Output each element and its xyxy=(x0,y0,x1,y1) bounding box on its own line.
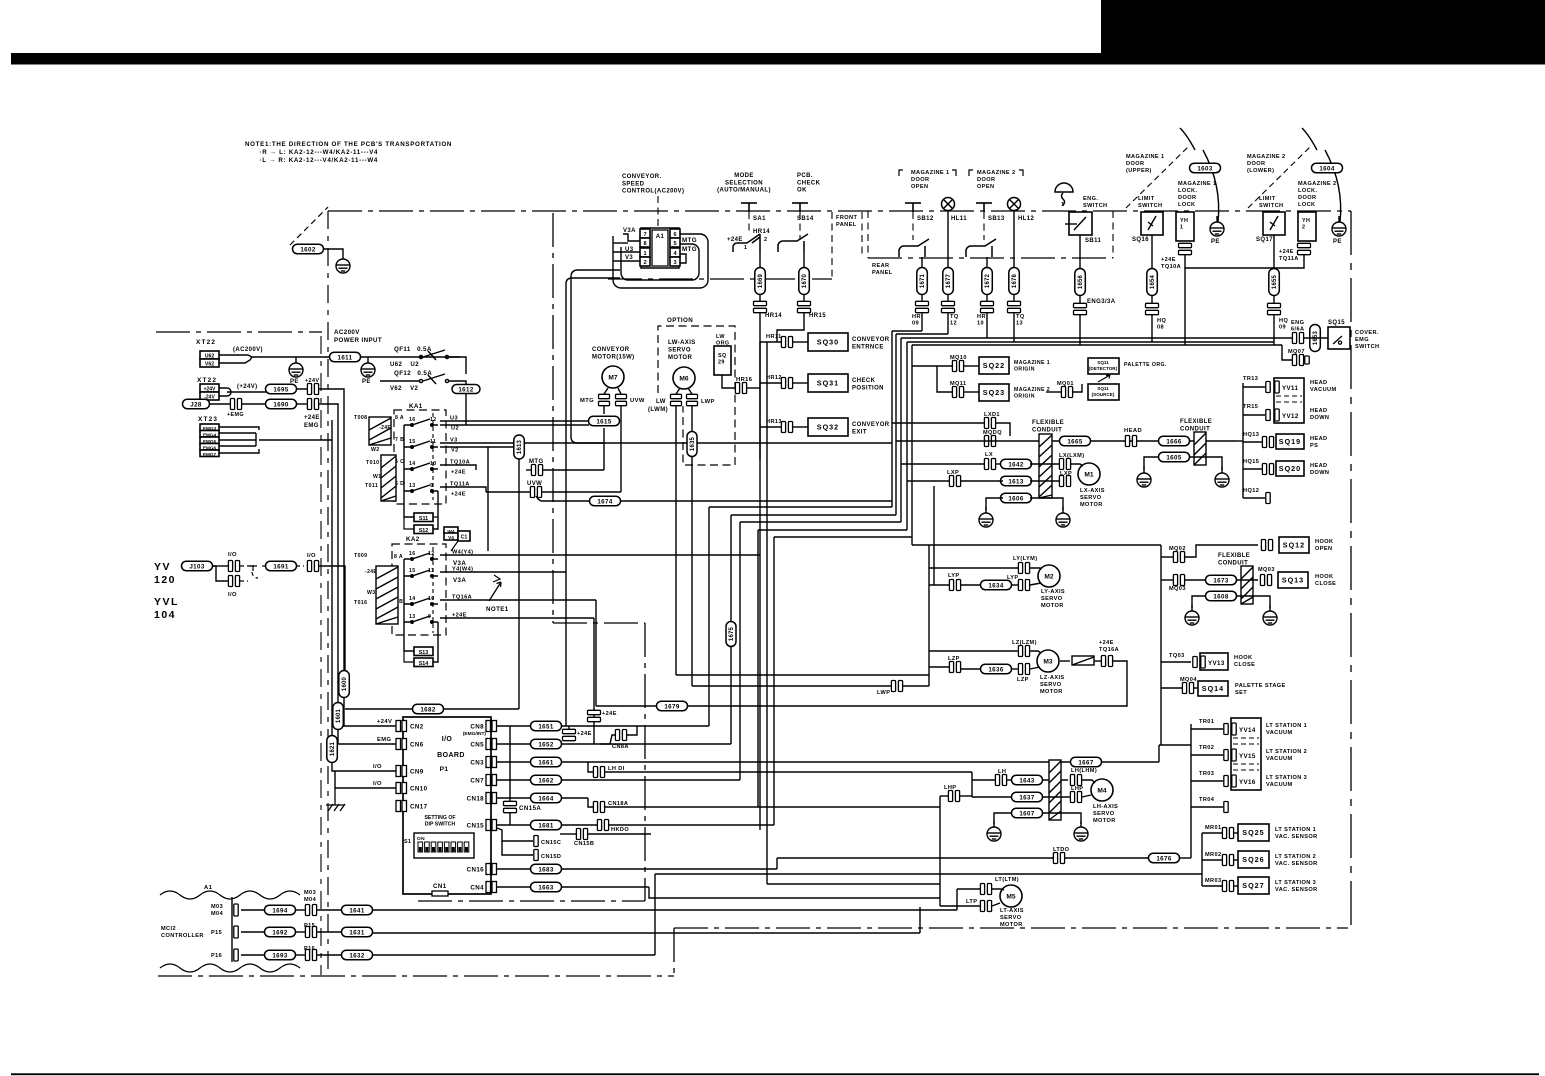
label conveyor speed control xyxy=(622,174,684,195)
label HR10 xyxy=(977,314,986,327)
conn lhp main xyxy=(948,791,959,802)
wire 1631 r xyxy=(372,932,920,934)
oval 1665 xyxy=(1060,436,1091,446)
wire uvw mid xyxy=(541,491,621,493)
label AC200V POWER INPUT xyxy=(334,329,382,344)
svg-text:TQ: TQ xyxy=(950,314,959,320)
oval 1611 xyxy=(330,352,361,362)
label YH2 xyxy=(1302,218,1310,231)
oval 1692 xyxy=(265,927,296,937)
svg-text:REAR: REAR xyxy=(872,263,889,269)
svg-text:HEAD: HEAD xyxy=(1310,380,1327,386)
conn below 1671 xyxy=(916,301,929,312)
wire 1642 xyxy=(1030,463,1060,465)
svg-text:1691: 1691 xyxy=(273,563,289,570)
SB12 contact xyxy=(899,239,929,257)
svg-text:1664: 1664 xyxy=(538,795,554,802)
border mid dash-dot v xyxy=(644,623,646,901)
svg-text:V3A: V3A xyxy=(623,228,636,234)
svg-text:12: 12 xyxy=(428,551,435,557)
svg-text:LT STATION 1: LT STATION 1 xyxy=(1266,723,1307,729)
svg-text:HL12: HL12 xyxy=(1018,216,1035,222)
svg-text:15: 15 xyxy=(409,568,416,574)
wire 1600 down xyxy=(344,697,396,726)
svg-text:1671: 1671 xyxy=(920,273,926,288)
svg-text:MQ03: MQ03 xyxy=(1258,567,1275,573)
XT22 box U62 xyxy=(200,351,219,360)
motor M2 xyxy=(1038,565,1060,587)
PE gnd b xyxy=(361,357,375,377)
svg-text:MOTOR: MOTOR xyxy=(1000,922,1023,928)
svg-text:DOOR: DOOR xyxy=(1126,161,1144,167)
svg-text:(+24V): (+24V) xyxy=(237,384,258,390)
CN1 tab xyxy=(432,891,448,896)
bus 760 xyxy=(759,342,761,830)
svg-text:YV: YV xyxy=(154,561,171,573)
svg-text:TQ03: TQ03 xyxy=(1169,653,1185,659)
oval 1691 xyxy=(266,561,297,571)
svg-text:V62 V2: V62 V2 xyxy=(390,386,419,392)
svg-text:ENTRNCE: ENTRNCE xyxy=(852,345,884,351)
svg-text:V3A: V3A xyxy=(453,577,466,584)
wire mq11 b xyxy=(963,391,979,393)
wire 1683 r xyxy=(561,868,777,870)
oval 1604 xyxy=(1312,163,1343,173)
bus vert 892 xyxy=(891,331,893,507)
oval 1679 xyxy=(657,701,688,711)
KA1 dashed box xyxy=(394,410,446,504)
svg-text:1651: 1651 xyxy=(538,723,554,730)
svg-text:CONVEYOR: CONVEYOR xyxy=(852,337,890,343)
conn io2 xyxy=(228,576,239,587)
svg-text:8 A: 8 A xyxy=(395,415,404,421)
wire lwp row xyxy=(692,685,891,687)
wire HR11 b xyxy=(792,341,808,343)
conn UVW mid xyxy=(530,487,541,498)
svg-text:S11: S11 xyxy=(419,516,428,522)
conn 1695 xyxy=(307,384,318,395)
conn ltp xyxy=(980,901,991,912)
svg-text:1608: 1608 xyxy=(1213,593,1229,600)
svg-text:CN7: CN7 xyxy=(470,778,484,785)
svg-text:8: 8 xyxy=(643,241,646,247)
pill 1656 xyxy=(1075,269,1086,296)
svg-text:TR03: TR03 xyxy=(1199,771,1214,777)
svg-text:1669: 1669 xyxy=(758,273,764,288)
wire 1605 xyxy=(1144,457,1159,470)
svg-text:1670: 1670 xyxy=(802,273,808,288)
oval 1613b xyxy=(1001,476,1032,486)
wire ka2 r4 24e xyxy=(440,617,594,619)
svg-text:1656: 1656 xyxy=(1078,274,1084,289)
KA2 s-wires xyxy=(404,559,414,651)
label NOTE1 arrow xyxy=(489,582,501,601)
wire HR15 down xyxy=(777,313,804,342)
conn MTG mid xyxy=(531,465,542,476)
wire m03 xyxy=(241,909,266,911)
svg-text:LT(LTM): LT(LTM) xyxy=(995,877,1019,883)
label lt station2 vac xyxy=(1266,749,1307,762)
wire hkdo r xyxy=(609,824,774,826)
wire tr04 xyxy=(1191,806,1223,808)
pill 1613 v xyxy=(514,435,525,459)
label flexible conduit hook xyxy=(1218,553,1250,567)
svg-text:M5: M5 xyxy=(1006,893,1015,900)
A1 pin3 xyxy=(670,257,680,266)
hatch conduit m4 xyxy=(1049,760,1061,820)
gnd 1607 r xyxy=(1074,821,1088,841)
SQ12 box xyxy=(1279,537,1309,553)
svg-text:CONDUIT: CONDUIT xyxy=(1180,427,1210,433)
svg-text:LWP: LWP xyxy=(701,399,715,405)
label magazine2 lock xyxy=(1298,181,1337,208)
svg-text:1607: 1607 xyxy=(1019,810,1035,817)
svg-text:MAGAZINE 1: MAGAZINE 1 xyxy=(1126,154,1165,160)
svg-text:V62: V62 xyxy=(205,362,214,368)
svg-text:SWITCH: SWITCH xyxy=(1355,344,1379,350)
svg-text:VAC. SENSOR: VAC. SENSOR xyxy=(1275,861,1318,867)
KA2 contact 15-11 xyxy=(404,570,438,577)
XT23 box EMG7 xyxy=(200,450,219,457)
wire p15 xyxy=(241,931,266,933)
svg-text:T016: T016 xyxy=(354,600,367,606)
conn MR01 xyxy=(1222,828,1233,839)
conn +24E a xyxy=(563,729,576,740)
YH2 conn xyxy=(1298,243,1311,254)
conn HR13 xyxy=(781,422,792,433)
wire cn8a xyxy=(600,735,615,744)
svg-text:SB14: SB14 xyxy=(797,216,814,222)
wire m6 lwp down xyxy=(691,406,693,431)
svg-text:08: 08 xyxy=(1157,325,1164,331)
BRAKE box xyxy=(1072,656,1094,665)
wire HR12 b xyxy=(792,382,808,384)
wire CN8 out xyxy=(497,725,531,727)
label MCI2 CONTROLLER xyxy=(161,926,204,939)
label TQ13 xyxy=(1016,314,1025,327)
wire tq16a loop xyxy=(596,661,1127,706)
svg-text:QF12 0.5A: QF12 0.5A xyxy=(394,370,432,377)
oval 1608 xyxy=(1206,591,1237,601)
conn CN15D xyxy=(534,850,538,861)
YV12 divider xyxy=(1276,401,1302,403)
svg-text:+24E: +24E xyxy=(304,415,320,421)
svg-text:HR11: HR11 xyxy=(766,334,782,340)
wire eng down xyxy=(1079,315,1081,345)
svg-text:I/O: I/O xyxy=(373,764,382,770)
svg-text:+24V: +24V xyxy=(377,719,392,725)
oval 1664 xyxy=(531,793,562,803)
oval 1603 xyxy=(1190,163,1221,173)
wire tq10a down xyxy=(1184,268,1186,345)
svg-text:LT STATION 3: LT STATION 3 xyxy=(1266,775,1307,781)
gnd 1607 l xyxy=(987,821,1001,841)
svg-text:I/O: I/O xyxy=(373,781,382,787)
svg-text:S1: S1 xyxy=(404,839,411,845)
conn lxp mid xyxy=(949,476,960,487)
svg-text:HQ: HQ xyxy=(1157,318,1166,324)
svg-text:P16: P16 xyxy=(211,953,222,959)
oval 1693 xyxy=(265,950,296,960)
svg-text:PE: PE xyxy=(1333,239,1342,245)
conn below 1654 xyxy=(1146,303,1159,314)
label TQ12 xyxy=(950,314,959,327)
conn p16 b xyxy=(305,950,316,961)
oval 1615 xyxy=(589,416,620,426)
svg-text:YH: YH xyxy=(1180,218,1188,224)
wire 1637 xyxy=(972,796,1012,798)
svg-text:1601: 1601 xyxy=(336,708,342,723)
label LX-AXIS SERVO MOTOR xyxy=(1080,488,1105,508)
svg-text:13: 13 xyxy=(409,614,416,620)
gnd 1605 l xyxy=(1137,467,1151,487)
svg-text:HR12: HR12 xyxy=(766,375,782,381)
rear panel left dash xyxy=(867,211,869,258)
svg-text:HQ15: HQ15 xyxy=(1243,459,1259,465)
svg-text:1634: 1634 xyxy=(988,582,1004,589)
label SQ29 xyxy=(718,353,727,366)
svg-text:1641: 1641 xyxy=(349,907,365,914)
svg-text:TQ: TQ xyxy=(1016,314,1025,320)
wire 1656 conn xyxy=(1079,296,1081,303)
wire 1621 down xyxy=(332,762,396,771)
label hook close 1 xyxy=(1315,574,1336,587)
border corner diag xyxy=(290,207,328,245)
svg-text:1690: 1690 xyxy=(273,401,289,408)
A1 pin4 xyxy=(670,248,680,257)
yv14 dividers xyxy=(1233,737,1259,739)
S12 box xyxy=(414,525,433,534)
wire lxd1 xyxy=(892,422,984,424)
wire mq07 drop xyxy=(1282,345,1292,360)
svg-text:AC200V: AC200V xyxy=(334,329,360,336)
conn ltdo xyxy=(1053,853,1064,864)
svg-text:HEAD: HEAD xyxy=(1310,436,1327,442)
pill 1671 xyxy=(917,268,928,295)
conn lyp2 xyxy=(1018,580,1029,591)
label lt station3 vac xyxy=(1266,775,1307,788)
pill 1655 xyxy=(1269,269,1280,296)
KA1 coil b xyxy=(381,455,396,501)
svg-text:8 A: 8 A xyxy=(394,554,403,560)
YV14-16 box xyxy=(1231,718,1261,790)
wire MR01 xyxy=(1202,832,1222,834)
bus vert 896 xyxy=(895,334,897,515)
svg-text:YV15: YV15 xyxy=(1239,753,1256,760)
SQ30 box xyxy=(808,333,848,351)
svg-text:M04: M04 xyxy=(304,897,317,903)
SQ13 box xyxy=(1278,572,1308,588)
wire 1613b xyxy=(907,480,949,482)
svg-text:1615: 1615 xyxy=(596,418,612,425)
svg-text:1: 1 xyxy=(1061,202,1065,208)
wire HR13 a xyxy=(760,426,781,428)
bus row 342 xyxy=(907,341,1274,343)
A1 wrap wire inner xyxy=(621,244,699,280)
SQ14 box xyxy=(1198,681,1228,696)
wire CN3 out xyxy=(497,761,531,763)
wire HR12 a xyxy=(760,382,781,384)
svg-text:HL11: HL11 xyxy=(951,216,967,222)
conn below 1672 xyxy=(981,301,994,312)
svg-text:+24E: +24E xyxy=(727,237,743,243)
svg-text:1621: 1621 xyxy=(330,741,336,756)
front panel inner dash a xyxy=(831,212,833,279)
svg-text:SB13: SB13 xyxy=(988,216,1005,222)
svg-text:+24E: +24E xyxy=(1161,257,1176,263)
gnd 1606 r xyxy=(1056,507,1070,527)
stair 2 horiz xyxy=(731,514,896,516)
bottom rule line xyxy=(11,1073,1539,1075)
conn lx xyxy=(984,459,995,470)
svg-text:1663: 1663 xyxy=(538,884,554,891)
diag dash mag1 xyxy=(1126,147,1188,208)
svg-text:CN2: CN2 xyxy=(410,724,424,731)
oval 1642 xyxy=(1001,459,1032,469)
A1 pin5 xyxy=(670,238,680,247)
conn CN9 xyxy=(396,766,401,777)
svg-text:LOCK: LOCK xyxy=(1298,202,1315,208)
oval J103 xyxy=(182,561,213,571)
label YH1 xyxy=(1180,218,1188,231)
svg-text:LOCK.: LOCK. xyxy=(1298,188,1317,194)
A1 left wires xyxy=(623,234,640,241)
svg-text:LT STATION 1: LT STATION 1 xyxy=(1275,827,1316,833)
yv15 dividers xyxy=(1233,763,1259,765)
svg-text:1631: 1631 xyxy=(349,929,365,936)
wire 940 vert xyxy=(939,796,941,906)
wire 1632 r xyxy=(372,954,655,956)
svg-text:2: 2 xyxy=(643,260,646,266)
wire w4 up xyxy=(451,541,458,551)
wire 767 bottom xyxy=(767,883,940,885)
oval 1605 xyxy=(1159,452,1190,462)
svg-text:10: 10 xyxy=(977,321,984,327)
KA2 dashed box xyxy=(392,544,446,635)
svg-text:U2: U2 xyxy=(451,426,459,432)
svg-text:7 B: 7 B xyxy=(395,437,404,443)
conn mq02 b xyxy=(1261,540,1272,551)
wire tq11a out xyxy=(440,487,486,492)
conn LWP low xyxy=(891,681,902,692)
wire ka2 r3 tq16a xyxy=(440,599,596,601)
svg-text:MAGAZINE 1: MAGAZINE 1 xyxy=(1014,360,1050,366)
svg-text:MOTOR: MOTOR xyxy=(1040,689,1063,695)
conn p15 b xyxy=(305,927,316,938)
wire cn18a r xyxy=(605,806,940,808)
svg-text:POSITION: POSITION xyxy=(852,386,884,392)
conn yv16 xyxy=(1232,775,1236,787)
conn below 1669 xyxy=(754,301,767,312)
svg-text:1605: 1605 xyxy=(1166,454,1182,461)
svg-text:TR04: TR04 xyxy=(1199,797,1215,803)
label LT-AXIS SERVO MOTOR xyxy=(1000,908,1024,928)
wire j28 b xyxy=(241,403,266,405)
svg-text:LOCK.: LOCK. xyxy=(1178,188,1197,194)
svg-text:(UPPER): (UPPER) xyxy=(1126,168,1152,174)
oval 1634 xyxy=(981,580,1012,590)
svg-text:M2: M2 xyxy=(1044,573,1053,580)
curve 1604 to PE xyxy=(1302,128,1341,222)
label HR09 xyxy=(912,314,921,327)
svg-text:OPEN: OPEN xyxy=(977,184,994,190)
svg-text:1675: 1675 xyxy=(729,626,735,641)
SQ29 box xyxy=(714,346,731,375)
A1 pin7 xyxy=(640,229,650,238)
conn lzp main xyxy=(949,662,960,673)
svg-text:120: 120 xyxy=(154,574,176,586)
svg-text:YV13: YV13 xyxy=(1208,660,1225,667)
pill 1654 xyxy=(1147,269,1158,296)
svg-text:A1: A1 xyxy=(656,234,665,240)
svg-text:LZ(LZM): LZ(LZM) xyxy=(1012,640,1037,646)
conn CN8 xyxy=(486,721,491,732)
main machine border top xyxy=(156,331,322,333)
SQ27 box xyxy=(1238,877,1269,894)
svg-text:LZ-AXIS: LZ-AXIS xyxy=(1040,675,1065,681)
wire lxp down xyxy=(933,486,935,585)
wire m3 brake xyxy=(1060,660,1070,662)
svg-text:SERVO: SERVO xyxy=(1093,811,1115,817)
svg-text:16: 16 xyxy=(409,551,416,557)
wire tr13 xyxy=(1243,386,1265,388)
OPTION dashed box xyxy=(658,326,735,465)
svg-text:SQ15: SQ15 xyxy=(1328,320,1345,326)
svg-text:J28: J28 xyxy=(190,401,202,408)
svg-text:YH: YH xyxy=(1302,218,1310,224)
pill 1678 xyxy=(1009,268,1020,295)
KA1 coil a xyxy=(369,417,391,445)
svg-text:2: 2 xyxy=(1302,225,1305,231)
svg-text:13: 13 xyxy=(409,483,416,489)
A1 pin2 xyxy=(640,257,650,266)
svg-text:1635: 1635 xyxy=(690,436,696,451)
dash SA1 xyxy=(748,212,750,232)
wire sq29 down xyxy=(722,375,735,388)
conn m7 mtg xyxy=(599,394,610,405)
svg-text:1637: 1637 xyxy=(1019,794,1035,801)
conn hr16 xyxy=(735,383,746,394)
wire SB11 down xyxy=(1079,235,1081,269)
conn m6 lwm xyxy=(671,394,682,405)
svg-text:1612: 1612 xyxy=(458,386,474,393)
svg-text:VAC. SENSOR: VAC. SENSOR xyxy=(1275,834,1318,840)
conn tr15 xyxy=(1266,410,1270,421)
C1 box xyxy=(458,531,470,541)
label lt station1 vac xyxy=(1266,723,1307,736)
dash below conveyor label xyxy=(657,196,659,232)
XT23 wires xyxy=(219,427,259,430)
A1 module box xyxy=(641,228,679,268)
dip switches xyxy=(418,842,469,852)
svg-text:3: 3 xyxy=(673,260,676,266)
stair 1 vert xyxy=(708,507,710,726)
wire CN15 out xyxy=(497,824,531,826)
svg-text:W1: W1 xyxy=(373,474,382,480)
wire CN4 out xyxy=(497,886,531,888)
wire mq03 a xyxy=(1161,579,1173,581)
svg-text:1692: 1692 xyxy=(272,929,288,936)
oval 1662 xyxy=(531,775,562,785)
wire 1612 down xyxy=(465,394,467,425)
svg-text:1672: 1672 xyxy=(985,273,991,288)
svg-text:QF11 0.5A: QF11 0.5A xyxy=(394,346,432,353)
label sq11 src xyxy=(1092,386,1115,397)
pill 1653 xyxy=(1310,325,1321,352)
wire qf12 left xyxy=(380,380,419,382)
wire v3 xyxy=(440,442,892,444)
note text xyxy=(245,141,452,164)
